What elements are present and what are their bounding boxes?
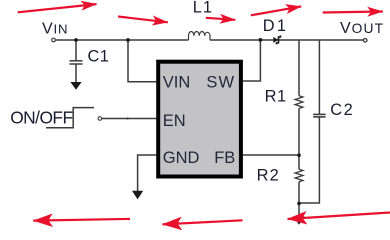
svg-text:GND: GND [163,149,200,167]
svg-text:C2: C2 [330,101,354,119]
svg-text:VIN: VIN [42,21,68,38]
svg-text:C1: C1 [88,48,110,66]
svg-text:ON/OFF: ON/OFF [10,108,72,128]
svg-text:D1: D1 [263,17,289,35]
svg-text:R1: R1 [265,88,287,106]
svg-text:FB: FB [214,149,235,167]
svg-text:VOUT: VOUT [340,20,384,37]
svg-text:VIN: VIN [163,74,191,92]
svg-text:SW: SW [206,74,235,92]
svg-text:EN: EN [163,112,186,130]
svg-text:R2: R2 [257,166,280,184]
svg-text:L1: L1 [193,0,213,16]
